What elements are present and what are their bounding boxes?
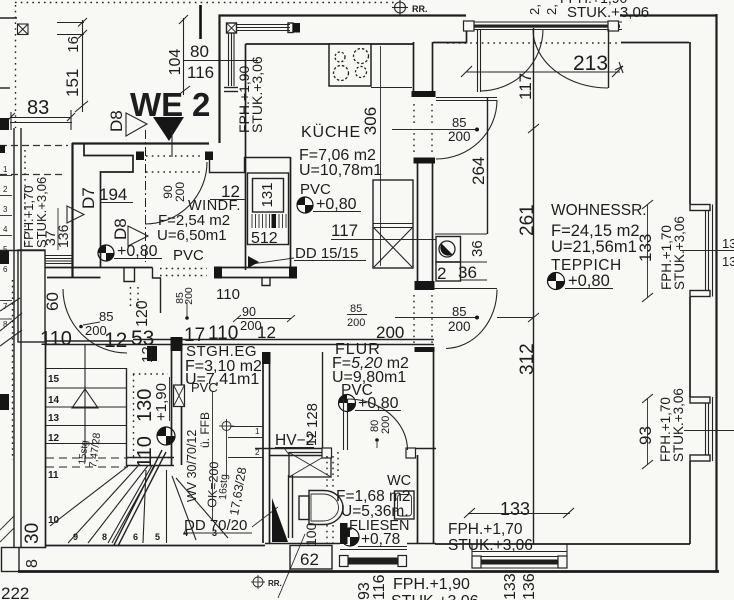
D7 door big swing into hall xyxy=(63,289,127,353)
svg-text:136: 136 xyxy=(55,224,71,248)
svg-text:13: 13 xyxy=(722,236,734,251)
WOHNESSR room labels xyxy=(548,202,647,290)
svg-text:306: 306 xyxy=(361,107,380,135)
svg-text:200: 200 xyxy=(347,317,365,329)
svg-text:2: 2 xyxy=(192,86,210,123)
flur upper door swing xyxy=(446,290,497,349)
dim 93 window 2 xyxy=(636,394,655,469)
dim row 110 12 53 xyxy=(40,323,276,352)
svg-text:14: 14 xyxy=(48,395,60,406)
dashed lines stairwell xyxy=(0,145,68,147)
dim 133 window east xyxy=(636,200,655,302)
svg-text:104: 104 xyxy=(167,49,184,76)
svg-text:+1,90: +1,90 xyxy=(153,383,170,421)
svg-text:120: 120 xyxy=(134,300,151,327)
survey marker box top-left xyxy=(18,24,29,35)
WC door leaf + swing xyxy=(344,399,408,450)
stair hall bottom wall xyxy=(45,545,265,547)
svg-text:FPH.+1,70: FPH.+1,70 xyxy=(448,521,523,538)
svg-text:133: 133 xyxy=(500,499,530,519)
svg-text:194: 194 xyxy=(99,185,127,204)
property boundary dotted line top xyxy=(15,2,398,4)
counter shelf line right of stove xyxy=(371,87,412,89)
svg-text:13: 13 xyxy=(48,413,60,424)
RR drain bottom xyxy=(251,575,282,589)
svg-text:8: 8 xyxy=(24,559,41,568)
svg-text:151: 151 xyxy=(63,69,82,97)
flur upper door wall + dots xyxy=(414,282,497,346)
svg-text:133: 133 xyxy=(502,573,519,600)
svg-text:110: 110 xyxy=(208,323,238,344)
svg-text:6: 6 xyxy=(133,532,138,542)
toilet xyxy=(299,491,343,525)
DD 70/20 label xyxy=(184,507,278,534)
svg-text:200: 200 xyxy=(183,287,195,305)
svg-text:+0,80: +0,80 xyxy=(358,395,399,412)
entrance right leaf + swing xyxy=(533,29,609,88)
crosshair marker xyxy=(213,392,264,520)
stove cooktop xyxy=(329,44,371,86)
svg-text:1: 1 xyxy=(3,165,8,174)
svg-text:100: 100 xyxy=(303,522,319,546)
svg-text:117: 117 xyxy=(331,221,358,240)
svg-text:2: 2 xyxy=(255,448,260,457)
window band west in wall xyxy=(45,256,72,264)
door triangle filled xyxy=(153,117,184,141)
WC labels xyxy=(336,473,411,548)
winder steps xyxy=(46,450,228,546)
svg-text:60: 60 xyxy=(43,292,62,311)
svg-text:133: 133 xyxy=(636,234,655,262)
core right wall xyxy=(171,337,183,465)
svg-text:2: 2 xyxy=(437,264,446,283)
svg-text:FPH.+1,90: FPH.+1,90 xyxy=(393,576,470,593)
thick dim stub xyxy=(199,5,202,39)
svg-text:116: 116 xyxy=(371,574,388,600)
svg-text:DD 70/20: DD 70/20 xyxy=(184,517,247,534)
svg-text:U=6,50m1: U=6,50m1 xyxy=(157,227,227,244)
svg-text:2,: 2, xyxy=(527,4,542,15)
svg-text:STUK.+3,06: STUK.+3,06 xyxy=(567,4,649,21)
WC west wall hatched xyxy=(272,475,293,542)
boundary dotted vertical left xyxy=(15,5,17,128)
svg-text:213: 213 xyxy=(573,52,608,75)
pier black xyxy=(293,23,300,33)
svg-text:4: 4 xyxy=(3,225,8,234)
svg-text:STUK.+3,06: STUK.+3,06 xyxy=(249,56,265,133)
dim 12 shaft xyxy=(210,182,245,201)
svg-text:80: 80 xyxy=(190,42,209,61)
dimension 83 xyxy=(7,97,75,130)
pier west windf xyxy=(18,250,45,342)
dim 85/200 kitchen south stacked xyxy=(347,303,367,329)
window corner box NW xyxy=(227,23,237,33)
window band west (glazing vertical) xyxy=(224,33,238,92)
svg-text:RR.: RR. xyxy=(268,579,282,588)
svg-text:85: 85 xyxy=(452,115,466,130)
corridor west wall to bottom xyxy=(415,347,435,544)
80/200 rotated WC door xyxy=(369,416,392,448)
svg-text:D8: D8 xyxy=(107,110,126,132)
svg-text:5: 5 xyxy=(155,532,160,542)
svg-text:200: 200 xyxy=(376,323,404,342)
flur west line xyxy=(322,352,324,448)
WINDF labels xyxy=(98,198,241,264)
svg-text:PVC: PVC xyxy=(173,247,204,264)
dim 213 entrance xyxy=(461,52,623,77)
dim line x533 with 117/261/312 xyxy=(516,28,539,544)
WC south window xyxy=(265,544,436,567)
FLUR labels xyxy=(332,341,409,412)
east wall inner segments xyxy=(689,42,691,204)
dim line east lower xyxy=(684,430,734,432)
STGH.EG labels xyxy=(185,343,262,395)
svg-text:9: 9 xyxy=(73,532,78,542)
svg-text:+0,80: +0,80 xyxy=(316,196,357,213)
WC dotted lines xyxy=(326,456,328,490)
svg-text:D8: D8 xyxy=(111,218,130,240)
entrance left leaf + swing xyxy=(478,29,544,92)
svg-text:3: 3 xyxy=(3,205,8,214)
dim 85/200 with dot stair hall xyxy=(79,309,113,338)
D8 door label WINDF xyxy=(111,218,148,246)
svg-text:222: 222 xyxy=(1,584,29,600)
svg-text:12: 12 xyxy=(139,346,156,363)
stair hall west wall xyxy=(45,342,47,548)
dotted vertical lower left xyxy=(12,280,14,460)
svg-text:200: 200 xyxy=(448,319,471,334)
svg-text:WC: WC xyxy=(387,473,411,489)
svg-text:200: 200 xyxy=(448,129,471,144)
kitchen counter with sink east xyxy=(373,180,413,268)
svg-text:6: 6 xyxy=(3,265,8,274)
svg-text:110: 110 xyxy=(216,286,240,303)
svg-text:U=21,56m1: U=21,56m1 xyxy=(551,238,637,256)
D8 entrance door swing WINDF xyxy=(145,162,207,224)
svg-text:90: 90 xyxy=(242,305,256,319)
WINDF inner wall jog xyxy=(84,144,133,268)
exterior wall east outer xyxy=(715,14,717,572)
stair direction arrow xyxy=(72,345,98,462)
svg-text:62: 62 xyxy=(300,550,319,569)
130 +1,90 110 rotated core xyxy=(134,377,175,468)
WV radiator box xyxy=(174,385,185,407)
svg-text:131: 131 xyxy=(259,182,276,207)
dim 117 kitchen xyxy=(331,221,436,240)
svg-text:+0,78: +0,78 xyxy=(361,531,400,548)
svg-text:312: 312 xyxy=(517,343,538,375)
svg-text:264: 264 xyxy=(469,157,488,185)
dimension line 151 / 16 vertical xyxy=(57,18,88,112)
HV-2 label xyxy=(275,432,314,466)
svg-text:85: 85 xyxy=(350,303,362,315)
dim 194 xyxy=(99,185,133,204)
neighbour stair steps upper left xyxy=(0,165,12,274)
projection dotted entrance xyxy=(447,42,620,44)
svg-text:16stg: 16stg xyxy=(217,474,230,500)
svg-text:15: 15 xyxy=(48,374,60,385)
svg-text:85: 85 xyxy=(452,304,466,319)
RR roof drain symbol top xyxy=(392,0,428,15)
62 box xyxy=(278,534,332,598)
svg-text:200: 200 xyxy=(240,318,262,333)
entrance jamb step left xyxy=(433,22,467,43)
window band top (glazing) xyxy=(236,23,300,33)
entrance opening posts xyxy=(136,152,144,161)
WE 2 apartment label xyxy=(107,86,210,157)
inner face top wall right xyxy=(621,42,689,44)
svg-text:117: 117 xyxy=(516,73,535,100)
dim 306 vertical in kitchen xyxy=(361,46,381,266)
svg-text:36: 36 xyxy=(469,240,486,257)
lower left: neighbour steps xyxy=(0,298,22,346)
svg-text:ü. FFB: ü. FFB xyxy=(198,412,212,448)
kitchen south wall band xyxy=(214,267,297,304)
DD 15/15 label xyxy=(248,245,366,268)
kitchen east wall below door xyxy=(414,158,436,290)
WC top wall xyxy=(255,448,436,458)
height datum symbol kitchen xyxy=(297,197,313,213)
svg-text:261: 261 xyxy=(517,204,538,236)
svg-text:DD 15/15: DD 15/15 xyxy=(295,245,358,262)
svg-text:FPH.+1,90: FPH.+1,90 xyxy=(560,0,628,6)
kitchen door leaf + swing xyxy=(436,98,497,160)
svg-text:93: 93 xyxy=(636,426,655,445)
svg-text:STUK.+3,06: STUK.+3,06 xyxy=(671,388,686,462)
first steps near wall xyxy=(228,427,263,458)
black marker left xyxy=(0,145,5,153)
FPH +1,90 bottom xyxy=(391,576,479,600)
neighbour wall left xyxy=(13,128,15,548)
FPH +1,70 bottom window xyxy=(448,521,533,554)
svg-text:U=10,78m1: U=10,78m1 xyxy=(299,162,382,179)
corridor east line xyxy=(487,97,489,234)
svg-text:83: 83 xyxy=(27,97,49,119)
svg-text:2: 2 xyxy=(3,185,8,194)
upper stair flight treads xyxy=(46,369,127,527)
entrance door frame xyxy=(464,21,623,31)
box bottom left xyxy=(2,548,20,572)
svg-text:RR.: RR. xyxy=(412,4,428,14)
dim 133 bottom window xyxy=(464,499,574,519)
svg-text:STUK.+3,06: STUK.+3,06 xyxy=(672,216,687,290)
bottom inner wall xyxy=(435,543,690,545)
door triangle open xyxy=(126,113,147,136)
opening projection dots xyxy=(146,155,204,157)
svg-text:5: 5 xyxy=(3,245,8,254)
door opening projection dots xyxy=(413,104,415,126)
svg-text:30: 30 xyxy=(22,523,43,544)
dim 90/200 flur opening xyxy=(233,305,295,333)
exterior wall NW corner outer lines xyxy=(220,16,467,144)
svg-text:13: 13 xyxy=(722,254,734,269)
WINDF apartment separation wall xyxy=(72,142,209,144)
window 1 east xyxy=(690,205,713,297)
section dash-dot line xyxy=(145,130,147,262)
south window living room xyxy=(472,544,567,568)
svg-text:WOHNESSR.: WOHNESSR. xyxy=(551,202,647,219)
svg-text:+0,80: +0,80 xyxy=(117,243,158,260)
svg-text:16: 16 xyxy=(65,36,82,53)
svg-text:KÜCHE: KÜCHE xyxy=(301,123,361,141)
svg-text:8: 8 xyxy=(102,532,107,542)
svg-text:STUK.+3,06: STUK.+3,06 xyxy=(34,177,49,248)
svg-text:HV−2: HV−2 xyxy=(275,432,314,449)
svg-text:110: 110 xyxy=(134,436,156,468)
svg-text:PVC: PVC xyxy=(191,380,218,395)
HV radiator box X xyxy=(289,452,338,477)
85/200 rotated at D7 door xyxy=(174,287,195,320)
dim 85/200 flur door top xyxy=(395,304,533,334)
stair hall top wall xyxy=(45,340,434,362)
svg-text:512: 512 xyxy=(251,230,278,247)
wall stub top-left xyxy=(0,17,17,19)
dimension 104 vertical with 80 / 116 xyxy=(167,15,258,96)
svg-text:2,: 2, xyxy=(544,4,559,15)
black marker lower left xyxy=(0,394,9,410)
dim line east 13x xyxy=(680,236,734,269)
kitchen east door pier xyxy=(412,42,436,97)
corridor cabinets 2/36 xyxy=(435,234,487,283)
svg-text:12: 12 xyxy=(48,433,60,444)
wall right of toilet xyxy=(340,523,348,544)
D7 door label WINDF xyxy=(67,187,98,223)
svg-text:1: 1 xyxy=(255,427,260,436)
svg-text:116: 116 xyxy=(187,63,214,82)
svg-text:200: 200 xyxy=(380,416,392,434)
bottom outer wall xyxy=(18,570,719,573)
svg-text:D7: D7 xyxy=(79,187,98,209)
washbasin xyxy=(395,491,415,519)
svg-text:85: 85 xyxy=(99,309,113,324)
dim 85/200 kitchen door xyxy=(392,115,479,144)
stair core xyxy=(126,368,174,466)
WINDF bottom wall xyxy=(45,267,153,269)
top wall right segment xyxy=(620,14,716,16)
radiator shaft 131/512 xyxy=(210,157,291,270)
kitchen labels xyxy=(299,123,382,213)
svg-text:36: 36 xyxy=(458,263,477,282)
svg-text:+0,80: +0,80 xyxy=(568,272,610,290)
window 2 east xyxy=(690,397,713,461)
svg-text:STUK.+3,06: STUK.+3,06 xyxy=(391,593,479,600)
svg-text:200: 200 xyxy=(173,182,187,202)
door projection dots WINDF south xyxy=(130,287,132,310)
inner wall faces kitchen NW xyxy=(246,43,414,45)
svg-text:128: 128 xyxy=(304,403,321,428)
svg-text:11: 11 xyxy=(48,470,59,481)
svg-text:136: 136 xyxy=(521,573,538,600)
stair hall east wall xyxy=(262,352,271,543)
